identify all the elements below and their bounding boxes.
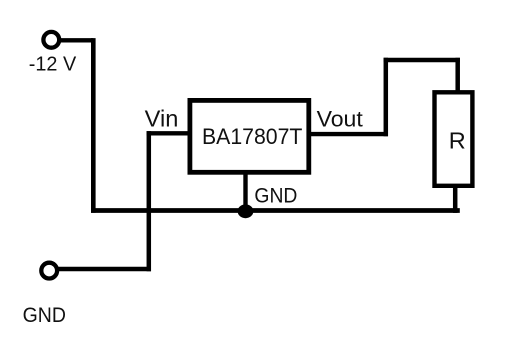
svg-text:Vout: Vout	[317, 106, 363, 131]
svg-text:BA17807T: BA17807T	[202, 124, 302, 149]
junction dot	[238, 204, 254, 218]
wire vertical down into resistor top	[455, 58, 460, 92]
wire Vin pin horizontal	[147, 131, 190, 135]
wire vertical from -12V corner down to ground rail	[91, 38, 96, 213]
wire GND terminal horizontal	[58, 267, 152, 271]
wire Vout pin horizontal	[310, 132, 388, 136]
terminal GND	[41, 263, 57, 279]
wire ground rail horizontal	[91, 208, 460, 213]
wire top horizontal to resistor	[384, 58, 460, 63]
wire Vout vertical up	[384, 58, 389, 137]
svg-text:GND: GND	[23, 303, 66, 327]
wire GND pin of regulator	[243, 172, 247, 211]
regulator U1 box	[190, 100, 309, 172]
svg-text:-12 V: -12 V	[29, 52, 77, 75]
svg-text:GND: GND	[254, 184, 297, 208]
resistor R box	[435, 92, 473, 186]
wire resistor bottom to ground rail	[453, 186, 458, 213]
terminal -12V	[43, 32, 59, 48]
svg-text:R: R	[449, 128, 466, 154]
svg-text:Vin: Vin	[145, 106, 179, 132]
wire Vin vertical down to GND terminal wire	[147, 131, 152, 271]
wire from -12V terminal to top corner	[59, 38, 93, 42]
